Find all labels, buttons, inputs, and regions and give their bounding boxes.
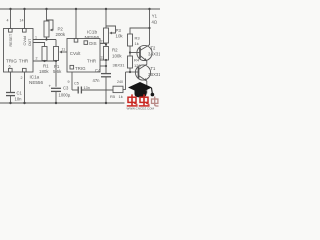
IC U2 ref label IC1b NE556 [85,30,100,41]
capacitor C4 [101,74,111,103]
node pin12 label [100,56,104,60]
capacitor C1 [6,93,15,104]
transistor T1 type label left [113,63,126,68]
transistor T2 [137,45,152,65]
node pin9 label [68,80,70,84]
svg-text:14: 14 [20,19,24,23]
resistor R2 [104,47,109,74]
svg-text:4: 4 [7,19,9,23]
resistor R4 [128,53,133,73]
svg-text:C3: C3 [63,86,69,91]
svg-text:THR: THR [87,59,96,64]
svg-text:2: 2 [36,57,38,61]
svg-text:TRIG: TRIG [6,59,17,64]
svg-text:1k: 1k [119,94,123,99]
IC U2 IC1b NE556 box [67,39,100,73]
wire IC1a pin2 to R1/P1 bottom node [33,60,56,62]
wire T2 base [130,52,140,54]
svg-text:5.6k: 5.6k [53,69,62,74]
svg-text:WWW.CNCDZ.COM: WWW.CNCDZ.COM [127,107,155,110]
potentiometer P2 200k [44,9,53,40]
svg-text:1000µ: 1000µ [59,93,71,98]
svg-text:RESET: RESET [9,33,13,46]
svg-text:240: 240 [117,80,123,84]
svg-text:R5: R5 [110,94,116,99]
wire IC1a pin4 to top rail [10,9,12,29]
node pin11 label [62,48,66,52]
transistor T1 label [148,66,161,77]
wire bottom ground rail [0,102,160,104]
svg-text:TRIG: TRIG [75,66,86,71]
transistor T2 emitter arrow [144,58,147,61]
svg-text:+: + [49,84,52,89]
node pin13 label [100,40,104,44]
IC U1 ref label IC1a NE556 [29,75,43,86]
svg-text:200k: 200k [56,32,66,37]
svg-text:47n: 47n [93,78,101,83]
svg-text:T2: T2 [151,46,157,51]
svg-text:C5: C5 [74,82,79,86]
svg-text:9: 9 [68,80,70,84]
svg-text:C4: C4 [95,68,101,73]
wire IC1a THR pin down to ground rail [24,72,26,103]
potentiometer P2 label [56,27,66,37]
potentiometer P3 wiper arrow [109,32,112,35]
svg-text:R2: R2 [112,48,118,53]
svg-text:T1: T1 [151,66,157,71]
svg-text:3BX31: 3BX31 [113,63,126,68]
wire IC1a TRIG pin down to C1 [10,72,12,93]
transistor T2 label [148,46,161,57]
transistor T1 emitter arrow [144,78,147,81]
IC U1 pin labels [6,59,29,64]
transistor T1 [135,64,150,103]
svg-text:P2: P2 [58,27,64,32]
svg-text:IC1b: IC1b [87,30,97,36]
resistor R5 [113,72,126,93]
svg-text:IC1a: IC1a [30,75,40,80]
junction dots [9,8,150,104]
IC U1 rotated pin name OUT [28,39,32,46]
wire IC1b pin9 OUT down [71,72,73,90]
capacitor C5 label [74,82,90,90]
resistor R1 label [39,64,49,74]
svg-text:10k: 10k [116,33,124,38]
potentiometer P1 5.6k [54,40,68,87]
svg-text:P1: P1 [54,64,60,69]
svg-text:P3: P3 [116,28,122,33]
svg-text:DIS: DIS [89,41,96,46]
watermark chong glyph 1 [127,94,138,106]
svg-text:1k: 1k [135,41,139,46]
svg-text:C1: C1 [17,91,23,96]
svg-text:CVdd: CVdd [23,36,27,46]
capacitor C3 plus mark [49,84,52,89]
wire IC1a right pin to R1 top [33,43,45,47]
watermark dian glyph [152,97,159,107]
IC U2 pin labels [70,41,97,71]
capacitor C3 electrolytic [51,88,61,103]
resistor R4 label [134,58,141,69]
potentiometer P1 wiper arrow [59,51,62,54]
resistor R2 label [112,48,122,59]
resistor R5 label [110,80,123,99]
potentiometer P3 label [116,28,124,38]
IC U1 rotated pin name Vdd [23,36,27,46]
svg-text:180k: 180k [39,69,49,74]
resistor R1 [42,47,47,62]
IC U1 IC1a NE556 box [4,29,34,73]
svg-text:13n: 13n [84,86,90,90]
wire top supply rail [0,8,160,10]
svg-text:NE556: NE556 [29,80,43,85]
watermark mortarboard cap [128,82,152,98]
svg-text:Y1: Y1 [152,14,158,19]
wire IC1b DIS to P3 bottom [100,43,106,45]
watermark cap tassel [151,88,154,96]
resistor R3 [128,34,133,53]
capacitor C1 label [15,91,23,102]
wire IC1b pin10 to top rail [75,9,77,39]
capacitor C5 series [72,87,113,94]
svg-text:6: 6 [9,65,11,69]
svg-text:1: 1 [35,36,37,40]
svg-text:2: 2 [21,76,23,80]
IC U1 rotated pin name RESET [9,33,13,46]
wire T1 base node [126,71,139,73]
svg-text:R3: R3 [135,36,141,41]
svg-text:10n: 10n [15,97,23,102]
watermark white backing [125,94,161,111]
wire top rail to T2 collector [149,9,151,45]
capacitor C4 label [93,68,102,83]
wire IC1b TRIG to node B [100,65,106,67]
svg-text:CVolt: CVolt [70,51,81,56]
resistor R3 label [135,36,141,46]
svg-text:3AX31: 3AX31 [148,52,160,57]
svg-text:11: 11 [62,48,66,52]
potentiometer P3 10k [104,9,116,47]
wire IC1a right pin to node A [33,39,56,41]
svg-text:100k: 100k [112,54,122,59]
svg-text:OUT: OUT [28,39,32,46]
watermark chong glyph 2 [139,94,150,106]
svg-text:3BX31: 3BX31 [148,72,160,77]
capacitor C3 label [59,86,71,98]
svg-text:R1: R1 [43,64,49,69]
potentiometer P1 label [53,64,62,74]
wire IC1b THR to R2 bottom [100,59,106,61]
svg-text:THR: THR [19,59,29,64]
wire R3 top to collector rail [130,28,150,34]
wire IC1a pin14 to top rail [24,9,26,29]
svg-text:4Ω: 4Ω [152,20,157,25]
watermark url text [127,107,155,111]
load label Y1 [152,14,158,25]
potentiometer P2 wiper arrow [50,29,53,32]
